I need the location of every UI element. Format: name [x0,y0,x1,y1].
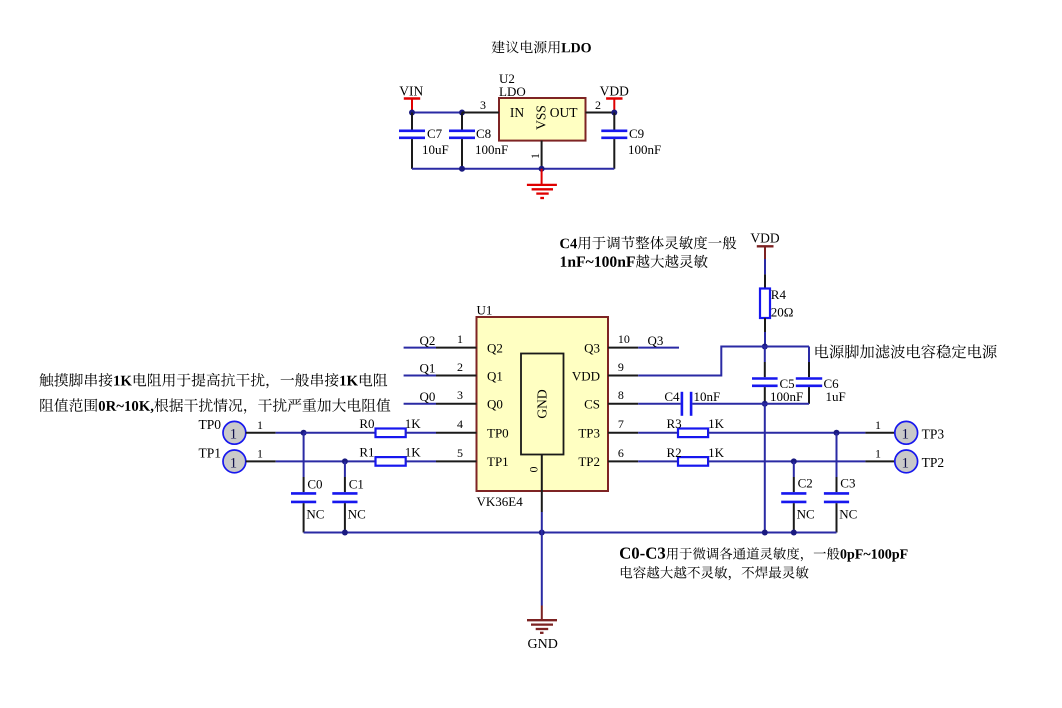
junction C8/rail [459,166,465,172]
pin 1 (U2.VSS) [528,141,542,169]
svg-text:1K: 1K [405,445,422,460]
connector TP2 [865,446,944,472]
svg-text:6: 6 [618,446,624,460]
svg-text:NC: NC [306,507,324,522]
svg-text:C9: C9 [629,126,644,141]
wire C4 net to C6 [765,403,809,405]
svg-text:IN: IN [510,105,524,120]
connector TP1 [198,446,275,473]
svg-text:20Ω: 20Ω [771,305,794,320]
svg-text:TP1: TP1 [198,446,221,461]
svg-text:Q2: Q2 [420,333,436,348]
svg-text:TP0: TP0 [198,417,221,432]
junction TP2 net [791,458,797,464]
svg-text:2: 2 [595,98,601,112]
capacitor C1 NC [332,461,365,532]
capacitor C6 1uF [796,347,846,405]
svg-text:1: 1 [901,455,909,471]
svg-text:GND: GND [528,637,558,652]
capacitor C2 NC [781,461,814,532]
svg-text:TP0: TP0 [487,426,509,441]
U1 pin 5 stub [436,446,477,462]
wire R3 to TP3 [708,432,865,434]
resistor R1 1K [359,445,421,466]
U1 pin 8 stub [608,388,638,404]
svg-text:R2: R2 [667,445,682,460]
wire net Q2 [404,347,436,349]
svg-text:1K: 1K [708,416,725,431]
svg-text:1uF: 1uF [826,389,846,404]
capacitor C4 10nF [638,389,765,416]
capacitor C9 [601,113,661,169]
svg-text:C0: C0 [307,476,322,491]
svg-text:NC: NC [839,507,857,522]
svg-text:OUT: OUT [550,105,578,120]
svg-text:TP3: TP3 [922,427,945,442]
svg-text:1: 1 [230,455,238,471]
annotation 1nF~100nF越大越灵敏 [561,255,708,268]
connector TP0 [198,417,275,444]
junction TP3 net [834,430,840,436]
svg-text:TP3: TP3 [578,426,600,441]
svg-text:C3: C3 [840,476,855,491]
capacitor C0 NC [291,433,324,533]
svg-text:VK36E4: VK36E4 [477,494,524,509]
resistor R2 1K [667,445,725,466]
wire U1.VDD to rail [638,347,765,376]
U1 pin 3 stub [436,388,477,404]
wire rail to ground [541,533,543,606]
svg-text:VSS: VSS [534,105,549,130]
power port VDD [600,84,629,113]
U1 pin 2 stub [436,360,477,376]
svg-text:VDD: VDD [750,231,779,246]
svg-text:1: 1 [528,153,542,159]
svg-text:TP2: TP2 [578,454,600,469]
svg-text:3: 3 [457,388,463,402]
wire net Q0 [404,403,436,405]
svg-text:100nF: 100nF [628,142,661,157]
annotation C0-C3用于微调各通道灵敏度... [620,547,908,561]
U1 pin 10 stub [608,332,638,348]
svg-text:R4: R4 [771,287,787,302]
junction C5/C4 net [762,401,768,407]
svg-text:2: 2 [457,360,463,374]
svg-text:GND: GND [535,389,550,418]
svg-text:1: 1 [230,427,238,443]
wire rail to C6 [765,346,809,348]
power port VDD (R4) [750,231,779,260]
wire VDD to R4 [764,259,766,274]
wire R4 to C5 rail [764,332,766,347]
svg-text:5: 5 [457,446,463,460]
svg-text:C7: C7 [427,126,443,141]
annotation line2 阻值范围0R~10K... [40,398,390,413]
capacitor C8 [449,113,508,169]
svg-text:Q0: Q0 [487,397,503,412]
svg-text:C2: C2 [798,476,813,491]
wire U1 to R2 [638,460,678,462]
wire VIN to C8/U2.IN [412,112,462,114]
svg-text:10nF: 10nF [694,389,721,404]
junction R4/C5 top [762,344,768,350]
capacitor C7 [399,113,449,169]
svg-text:0: 0 [526,467,540,473]
svg-text:R3: R3 [667,416,682,431]
wire LDO ground rail [412,168,614,170]
svg-text:10uF: 10uF [422,142,449,157]
wire net Q3 [638,347,679,349]
svg-text:1: 1 [901,427,909,443]
svg-text:100nF: 100nF [475,142,508,157]
svg-text:Q0: Q0 [420,389,436,404]
resistor R3 1K [667,416,725,437]
svg-text:100nF: 100nF [770,389,803,404]
svg-text:CS: CS [584,397,600,412]
svg-text:Q3: Q3 [648,333,664,348]
U1 pin 4 stub [436,417,477,433]
U1 pin 6 stub [608,446,638,462]
svg-text:1: 1 [875,418,881,432]
annotation C4用于调节整体灵敏度一般 [560,236,736,250]
wire GND rail [304,532,837,534]
capacitor C3 NC [824,433,857,533]
svg-text:C1: C1 [349,476,364,491]
wire junction to R0 [304,432,376,434]
svg-text:1: 1 [875,446,881,460]
annotation line1 触摸脚串接1K电阻... [40,373,388,389]
svg-text:Q1: Q1 [420,361,436,376]
svg-text:Q1: Q1 [487,368,503,383]
regulator U2 LDO [499,71,586,141]
resistor R0 1K [359,416,421,437]
svg-text:TP2: TP2 [922,455,945,470]
junction TP1/C1 [342,458,348,464]
svg-text:LDO: LDO [499,84,526,99]
junction U2.VSS/rail [539,166,545,172]
wire R1 to U1 [406,460,436,462]
U1 pin 9 stub [608,360,638,376]
svg-text:C4: C4 [664,389,680,404]
svg-text:R0: R0 [359,416,374,431]
IC U1 VK36E4 [477,303,609,509]
svg-text:7: 7 [618,417,624,431]
wire TP0 to junction [276,432,304,434]
ground (earth) at U2 [527,169,557,198]
pin 2 (U2.OUT) [586,98,615,113]
annotation title 建议电源用LDO [492,41,591,54]
wire U1 to R3 [638,432,678,434]
U1 internal GND block [521,354,564,455]
junction at VIN/C7 [409,110,415,116]
junction at C8/pin3 [459,110,465,116]
svg-text:8: 8 [618,388,624,402]
svg-text:1K: 1K [405,416,422,431]
junction GND rail [762,530,768,536]
resistor R4 20Ω [760,274,793,332]
junction TP0/C0 [301,430,307,436]
junction GND rail [342,530,348,536]
svg-text:VIN: VIN [399,84,423,99]
connector TP3 [865,418,944,444]
svg-text:Q3: Q3 [584,340,600,355]
svg-text:C8: C8 [476,126,491,141]
junction GND rail [539,530,545,536]
pin 3 (U2.IN) [462,98,499,113]
svg-text:1K: 1K [708,445,725,460]
wire U1.GND to rail [541,512,543,533]
wire net Q1 [404,375,436,377]
junction GND rail [791,530,797,536]
wire R2 to TP2 [708,460,865,462]
power port VIN [399,84,423,113]
svg-text:3: 3 [480,98,486,112]
svg-text:TP1: TP1 [487,454,509,469]
wire R0 to U1 [406,432,436,434]
wire TP1 to R1 [276,460,376,462]
svg-text:VDD: VDD [572,368,600,383]
svg-text:Q2: Q2 [487,340,503,355]
svg-text:U1: U1 [477,303,493,318]
svg-text:R1: R1 [359,445,374,460]
wire C5 to GND rail [764,404,766,533]
U1 pin 1 stub [436,332,477,348]
U1 pin 7 stub [608,417,638,433]
U1 pin 0 (GND) stub [526,455,541,513]
power port GND [527,606,558,653]
svg-text:4: 4 [457,417,463,431]
svg-text:NC: NC [348,507,366,522]
svg-text:VDD: VDD [600,84,629,99]
svg-text:NC: NC [797,507,815,522]
svg-text:1: 1 [257,446,263,460]
svg-text:10: 10 [618,332,630,346]
annotation 电源脚加滤波电容稳定电源 [816,344,997,358]
annotation 电容越大越不灵敏... [621,566,809,580]
junction at VDD/C9 [611,110,617,116]
capacitor C5 100nF [752,347,803,405]
svg-text:1: 1 [257,418,263,432]
svg-text:1: 1 [457,332,463,346]
svg-text:9: 9 [618,360,624,374]
